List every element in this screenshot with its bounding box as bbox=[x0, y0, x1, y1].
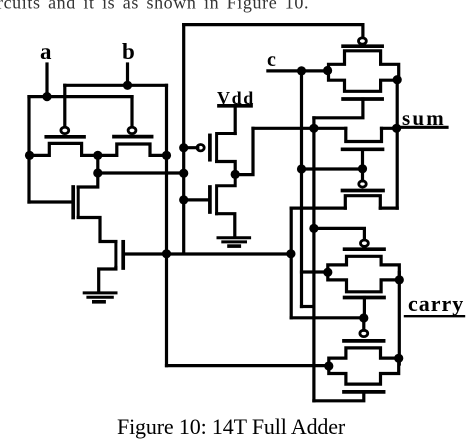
wire shared drain vertical bbox=[96, 155, 99, 173]
wire V1 branch to TG3 left arm bbox=[302, 270, 329, 273]
wire net b long vertical bbox=[165, 85, 168, 365]
node P1 source / left vertical bbox=[25, 151, 34, 160]
node c / V1 bbox=[297, 66, 306, 75]
wire V2 to TG4 ngate bbox=[314, 392, 364, 401]
node N2 gate line / V3 bbox=[286, 249, 295, 258]
node TG3 right arm / carry bbox=[395, 275, 404, 284]
wire rail B (from TG2 pmos) bbox=[291, 207, 345, 210]
transistor P3 (inverter pmos) bbox=[184, 134, 236, 175]
wire P1 gate drop bbox=[63, 85, 66, 126]
Vdd rail bbox=[219, 106, 251, 134]
node TG1 right arm bbox=[393, 75, 402, 84]
node P2 right / b vertical bbox=[162, 151, 171, 160]
wire TG2 right vertical bbox=[396, 80, 399, 208]
cropped paragraph text at top bbox=[0, 0, 309, 13]
node N1 drain bbox=[93, 168, 102, 177]
svg-text:rcuits and it is as shown in F: rcuits and it is as shown in Figure 10. bbox=[0, 0, 309, 13]
transmission gate TG1 bbox=[329, 38, 399, 99]
node TG3 left arm bbox=[323, 268, 332, 277]
node inverter pmos gate bbox=[179, 143, 188, 152]
node V2 / rail A bbox=[309, 124, 318, 133]
wire TG1 ngate jog bbox=[314, 99, 363, 118]
wire rail A right of TG2 bbox=[382, 127, 398, 130]
svg-text:c: c bbox=[267, 49, 276, 71]
node b junction bbox=[123, 81, 132, 90]
transmission gate TG4 bbox=[329, 318, 399, 392]
transistor P1 (pmos, gate b) bbox=[29, 127, 98, 155]
wire net V3 vertical bbox=[290, 208, 293, 318]
wire b input stem bbox=[126, 64, 129, 86]
node TG4 right arm bbox=[394, 354, 403, 363]
node inverter output bbox=[231, 170, 240, 179]
ground symbol inverter bbox=[218, 238, 250, 246]
wire TG2 gates line bbox=[302, 167, 363, 170]
transistor N3 (inverter nmos) bbox=[184, 174, 236, 237]
wire to TG4 left arm bbox=[167, 364, 330, 367]
wire V3 to TG gates bbox=[291, 316, 364, 319]
node TG2 gates / V1 bbox=[297, 164, 306, 173]
node a junction bbox=[42, 92, 51, 101]
node sum bbox=[392, 124, 401, 133]
wire c input line bbox=[268, 69, 329, 72]
svg-text:carry: carry bbox=[408, 291, 464, 316]
node TG4 left arm bbox=[324, 361, 333, 370]
svg-text:b: b bbox=[122, 39, 135, 64]
node c / TG1 left arm bbox=[323, 66, 332, 75]
transmission gate TG2 pmos (series bridge) bbox=[343, 169, 384, 208]
node TG2 nmos gate bbox=[358, 164, 367, 173]
node N2 gate / b vertical bbox=[162, 249, 171, 258]
transmission gate TG3 bbox=[328, 240, 400, 318]
wire N1 gate lead bbox=[29, 200, 73, 203]
wire TG1 pgate drop bbox=[361, 25, 364, 38]
transmission gate TG2 nmos (series bridge) bbox=[343, 128, 383, 169]
ground symbol left bbox=[84, 293, 116, 302]
wire inverter output to rail A bbox=[235, 128, 253, 174]
wire V1 bottom link to V2 bbox=[302, 305, 314, 308]
wire net a left vertical bbox=[27, 97, 30, 202]
wire net a horizontal bbox=[29, 95, 132, 98]
svg-text:Figure 10: 14T Full Adder: Figure 10: 14T Full Adder bbox=[117, 414, 346, 439]
wire a input stem bbox=[45, 64, 48, 97]
node xor vertical mid bbox=[179, 169, 188, 178]
node P1-P2 shared bbox=[93, 151, 102, 160]
wire net c vertical V1 bbox=[300, 71, 303, 307]
node inverter nmos gate bbox=[179, 195, 188, 204]
wire rail A (sum side) bbox=[253, 127, 346, 130]
wire carry vertical bbox=[398, 273, 401, 365]
transistor P2 (pmos, gate a) bbox=[98, 127, 167, 155]
wire sum output line bbox=[397, 126, 447, 129]
node TG3/TG4 gates bbox=[359, 313, 368, 322]
wire TG3 pgate jog bbox=[314, 228, 365, 239]
wire net V2 vertical bbox=[312, 118, 315, 401]
node TG3 pgate / V2 bbox=[309, 224, 318, 233]
wire drain to long vertical bbox=[98, 171, 184, 174]
wire top loop horizontal bbox=[184, 23, 363, 26]
transistor N1 (nmos) bbox=[73, 173, 116, 242]
wire net b horizontal bbox=[65, 84, 167, 87]
wire carry underline bbox=[405, 315, 464, 317]
wire rail B right segment bbox=[380, 207, 397, 210]
transistor N2 (nmos) bbox=[99, 242, 291, 293]
svg-text:a: a bbox=[40, 39, 52, 64]
wire xor node long vertical bbox=[182, 25, 185, 254]
wire P2 gate drop bbox=[130, 97, 133, 126]
